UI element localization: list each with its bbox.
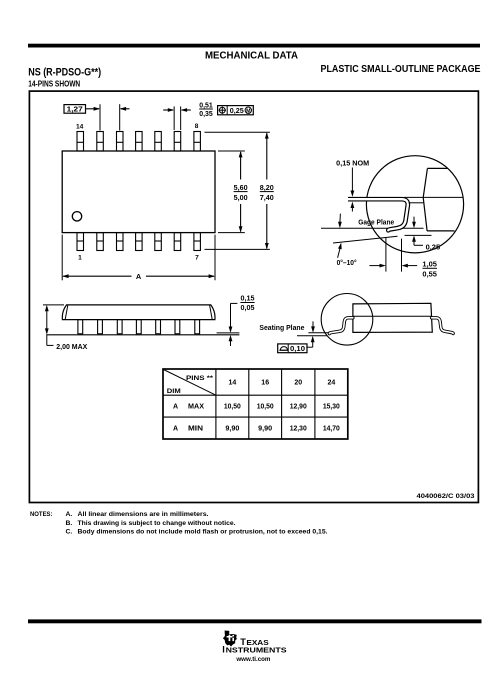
table diagonal xyxy=(164,370,216,396)
pin 4 (top view, lower row) xyxy=(136,233,143,251)
svg-text:1,05: 1,05 xyxy=(422,261,437,268)
svg-text:0,15: 0,15 xyxy=(241,296,255,303)
svg-text:12,30: 12,30 xyxy=(290,426,307,433)
svg-text:C.: C. xyxy=(66,529,73,536)
side view lead 3 xyxy=(117,320,122,334)
pin 8 (top view, upper row) xyxy=(194,132,201,152)
table row A MIN values xyxy=(225,426,340,433)
svg-text:15,30: 15,30 xyxy=(323,404,340,411)
end view parting line xyxy=(353,315,432,317)
svg-text:0,55: 0,55 xyxy=(422,272,437,279)
svg-text:A.: A. xyxy=(66,511,73,518)
table row A MAX values xyxy=(224,404,340,411)
pin 11 (top view, upper row) xyxy=(136,132,143,152)
TI logo TEXAS xyxy=(240,637,269,647)
svg-text:Body dimensions do not include: Body dimensions do not include mold flas… xyxy=(78,529,328,536)
top view package body xyxy=(62,151,215,233)
svg-text:A: A xyxy=(173,404,178,411)
side view package body xyxy=(62,305,215,320)
pin 2 (top view, lower row) xyxy=(97,233,104,251)
svg-text:7: 7 xyxy=(195,255,199,262)
svg-text:0,25: 0,25 xyxy=(426,244,441,251)
pin 14 (top view, upper row) xyxy=(77,132,84,152)
note B xyxy=(66,520,236,527)
end view detail circle xyxy=(321,294,373,346)
pin 1 label xyxy=(78,255,82,262)
svg-text:5,00: 5,00 xyxy=(234,195,248,202)
table pin-count headers xyxy=(228,380,335,387)
dim 0,15/0,05 standoff xyxy=(229,296,255,346)
svg-text:0,25: 0,25 xyxy=(230,108,244,115)
pin 7 (top view, lower row) xyxy=(194,233,201,251)
header PLASTIC SMALL-OUTLINE PACKAGE xyxy=(321,64,481,75)
svg-text:NS (R-PDSO-G**): NS (R-PDSO-G**) xyxy=(28,66,101,78)
svg-text:4040062/C 03/03: 4040062/C 03/03 xyxy=(417,493,475,500)
pin 1 index dot xyxy=(72,212,81,221)
table row A MAX label xyxy=(173,404,204,411)
TI logo www.ti.com xyxy=(235,656,270,663)
dim 5,60/5,00 body width xyxy=(218,151,248,233)
svg-text:B.: B. xyxy=(66,520,73,527)
pin 7 label xyxy=(195,255,199,262)
svg-text:5,60: 5,60 xyxy=(234,185,248,192)
svg-text:www.ti.com: www.ti.com xyxy=(235,656,270,663)
notes label xyxy=(30,511,53,518)
side view lead 4 xyxy=(136,320,141,334)
seating plane line (end view) xyxy=(297,335,327,337)
svg-text:Gage Plane: Gage Plane xyxy=(358,219,394,226)
svg-text:M: M xyxy=(246,108,251,114)
svg-text:PINS **: PINS ** xyxy=(186,375,213,382)
side view lead 6 xyxy=(175,320,180,334)
svg-text:16: 16 xyxy=(261,380,269,387)
table header DIM xyxy=(167,388,181,395)
dim 2,00 MAX height xyxy=(43,305,88,351)
dim 0,25 gage to seating xyxy=(405,217,441,252)
note C xyxy=(66,529,328,536)
angle line 0-10 deg xyxy=(333,236,398,243)
detail parting line xyxy=(404,196,463,198)
svg-text:NOTES:: NOTES: xyxy=(30,511,53,518)
end view right lead xyxy=(432,318,454,334)
svg-text:NSTRUMENTS: NSTRUMENTS xyxy=(226,645,287,654)
end view left lead xyxy=(329,318,353,334)
gage plane label xyxy=(338,214,394,229)
detail circle xyxy=(366,156,463,253)
side view lead 5 xyxy=(156,320,161,334)
svg-text:9,90: 9,90 xyxy=(225,426,239,433)
flatness callout 0,10 xyxy=(278,344,307,353)
detail lead (magnified gull-wing lead) xyxy=(344,195,408,231)
svg-text:14: 14 xyxy=(76,124,84,131)
svg-text:0,35: 0,35 xyxy=(199,111,213,118)
svg-text:12,90: 12,90 xyxy=(290,404,307,411)
svg-text:1,27: 1,27 xyxy=(67,106,83,113)
drawing frame xyxy=(29,91,478,502)
svg-text:14-PINS SHOWN: 14-PINS SHOWN xyxy=(28,80,80,89)
svg-text:MIN: MIN xyxy=(188,426,203,433)
pin 9 (top view, upper row) xyxy=(174,132,181,152)
svg-text:24: 24 xyxy=(327,380,335,387)
svg-text:0,15 NOM: 0,15 NOM xyxy=(336,160,369,167)
detail lead inner line xyxy=(409,202,424,204)
side view lead 7 xyxy=(195,320,200,334)
svg-text:10,50: 10,50 xyxy=(224,404,241,411)
svg-text:DIM: DIM xyxy=(167,388,181,395)
pin 14 label xyxy=(76,124,84,131)
table header PINS ** xyxy=(186,375,213,382)
dim table grid xyxy=(163,369,348,439)
angle label 0-10 deg xyxy=(337,243,357,267)
svg-text:20: 20 xyxy=(294,380,302,387)
pin 6 (top view, lower row) xyxy=(174,233,181,251)
svg-text:Seating Plane: Seating Plane xyxy=(259,325,304,332)
pin 12 (top view, upper row) xyxy=(116,132,123,152)
header rule xyxy=(28,44,480,48)
svg-text:PLASTIC SMALL-OUTLINE PACKAGE: PLASTIC SMALL-OUTLINE PACKAGE xyxy=(321,64,481,75)
pin 8 label xyxy=(195,123,199,130)
dim 1,05/0,55 foot length xyxy=(369,238,437,279)
pin 1 (top view, lower row) xyxy=(77,233,84,251)
note A xyxy=(66,511,209,518)
gage plane line xyxy=(321,227,424,229)
side view lead 2 xyxy=(98,320,103,334)
svg-text:I: I xyxy=(222,644,225,654)
svg-text:7,40: 7,40 xyxy=(260,195,274,202)
title MECHANICAL DATA xyxy=(205,51,299,62)
dim 0,51/0,35 lead width xyxy=(163,103,213,130)
svg-text:All linear dimensions are in m: All linear dimensions are in millimeters… xyxy=(78,511,209,518)
foot plane line (side view) xyxy=(217,332,240,334)
table row A MIN label xyxy=(173,426,203,433)
pin 5 (top view, lower row) xyxy=(155,233,162,251)
svg-text:1: 1 xyxy=(78,255,82,262)
side view lead 1 xyxy=(78,320,83,334)
svg-text:0,10: 0,10 xyxy=(290,346,305,353)
svg-text:2,00 MAX: 2,00 MAX xyxy=(56,344,87,351)
package code NS (R-PDSO-G**) xyxy=(28,66,101,78)
end view package body xyxy=(353,303,432,332)
svg-text:0°–10°: 0°–10° xyxy=(337,259,357,267)
dim A overall length xyxy=(62,235,215,282)
TI logo INSTRUMENTS xyxy=(222,644,287,654)
true position callout 0,25 M xyxy=(218,106,254,115)
dim 8,20/7,40 overall width xyxy=(205,132,274,249)
detail body edge xyxy=(423,168,454,231)
pin 10 (top view, upper row) xyxy=(155,132,162,152)
svg-text:8,20: 8,20 xyxy=(260,185,274,192)
svg-text:9,90: 9,90 xyxy=(258,426,272,433)
document number xyxy=(417,493,475,500)
svg-text:14,70: 14,70 xyxy=(323,426,340,433)
pin 13 (top view, upper row) xyxy=(97,132,104,152)
svg-text:10,50: 10,50 xyxy=(257,404,274,411)
svg-text:14: 14 xyxy=(228,380,236,387)
foot plane line (end view) xyxy=(308,332,328,334)
svg-text:A: A xyxy=(173,426,178,433)
svg-text:A: A xyxy=(136,272,142,281)
subtitle 14-PINS SHOWN xyxy=(28,80,80,89)
svg-text:0,05: 0,05 xyxy=(241,305,255,312)
pin 3 (top view, lower row) xyxy=(116,233,123,251)
TI logo state mark xyxy=(223,631,237,647)
svg-text:8: 8 xyxy=(195,123,199,130)
svg-text:This drawing is subject to cha: This drawing is subject to change withou… xyxy=(78,520,236,527)
footer rule xyxy=(28,619,482,623)
dim 1,27 pitch xyxy=(64,104,130,130)
dim 0,15 NOM lead thickness xyxy=(336,160,369,211)
svg-text:MECHANICAL DATA: MECHANICAL DATA xyxy=(205,51,299,62)
seating plane label xyxy=(259,321,315,347)
seating plane line (side view) xyxy=(46,334,239,336)
svg-text:MAX: MAX xyxy=(188,404,204,411)
